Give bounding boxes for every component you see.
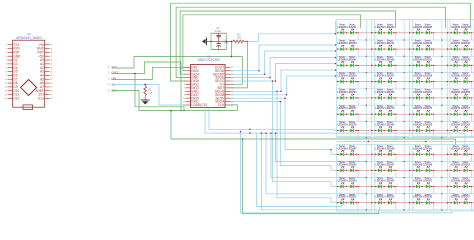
- wire cathode drop D307: [433, 187, 435, 194]
- svg-text:LED270: LED270: [338, 107, 348, 110]
- LED252 D252: [451, 56, 461, 67]
- junction row at box edge: [409, 202, 410, 203]
- wire SEG band row5: [231, 70, 336, 91]
- arduino pin VIN: [39, 43, 53, 47]
- junction D294 cathode: [346, 170, 347, 171]
- svg-text:LED263: LED263: [347, 91, 357, 94]
- junction D277 cathode: [469, 114, 470, 115]
- module box top 2: [374, 20, 409, 137]
- junction D238 cathode: [346, 48, 347, 49]
- wire cathode drop D303: [357, 187, 359, 194]
- wire cathode lead D279: [354, 129, 359, 131]
- junction cathode drop: [358, 48, 359, 49]
- junction anode in D254: [337, 81, 338, 82]
- svg-text:LED231: LED231: [347, 26, 357, 29]
- wire lead D232-D233: [382, 32, 389, 34]
- wire anode lead D260: [450, 81, 454, 83]
- wire anode lead D256: [374, 81, 378, 83]
- wire lead D290-D291: [419, 153, 426, 155]
- wire bottom outer rail: [241, 132, 453, 213]
- junction row at box edge: [447, 97, 448, 98]
- LED254 D254: [338, 72, 348, 83]
- arduino pin D10: [5, 89, 19, 93]
- wire anode lead D234: [412, 32, 416, 34]
- net label VCC: [108, 65, 117, 69]
- wire cathode drop D283: [433, 130, 435, 137]
- U1 pin SEGD: [215, 69, 233, 73]
- svg-text:LED279: LED279: [347, 123, 357, 126]
- wire anode lead D272: [374, 113, 378, 115]
- svg-text:LED284: LED284: [451, 123, 461, 126]
- LED261 D261: [461, 72, 471, 83]
- wire lead D298-D299: [419, 169, 426, 171]
- wire lead D302-D303: [344, 186, 351, 188]
- junction anode in D256: [375, 81, 376, 82]
- column bus 3: [441, 20, 443, 212]
- LED245 D245: [461, 40, 471, 51]
- wire cathode drop D265: [395, 98, 397, 105]
- junction D293 cathode: [469, 154, 470, 155]
- junction row at box edge: [447, 32, 448, 33]
- LED294 D294: [338, 161, 348, 172]
- U1 pin SEGA: [215, 100, 233, 104]
- wire column bus row y=81.64: [337, 88, 474, 90]
- svg-text:LED282: LED282: [413, 123, 423, 126]
- junction bottom row4: [276, 91, 278, 93]
- LED266 D266: [413, 89, 423, 100]
- wire row continuation after D285: [472, 129, 474, 131]
- junction column bus: [404, 56, 405, 57]
- junction row at box edge: [409, 114, 410, 115]
- svg-text:LED249: LED249: [385, 58, 395, 61]
- svg-text:LED287: LED287: [347, 147, 357, 150]
- wire row continuation after D287: [358, 153, 374, 155]
- svg-text:VCC: VCC: [112, 65, 118, 69]
- LED234 D234: [413, 23, 423, 34]
- wire VCC to V+ pin: [112, 57, 243, 85]
- wire anode lead D302: [337, 186, 341, 188]
- wire row continuation after D251: [434, 64, 450, 66]
- junction D299 cathode: [431, 170, 432, 171]
- wire cathode lead D255: [354, 81, 359, 83]
- svg-text:LED305: LED305: [385, 180, 395, 183]
- junction column bus: [441, 137, 442, 138]
- wire cathode lead D295: [354, 169, 359, 171]
- junction anode in D278: [337, 130, 338, 131]
- wire lead D266-D267: [419, 97, 426, 99]
- junction matrix rail: [335, 33, 337, 35]
- junction cathode drop: [433, 154, 434, 155]
- LED249 D249: [385, 56, 395, 67]
- wire row continuation after D291: [434, 153, 450, 155]
- junction column bus: [404, 39, 405, 40]
- wire anode lead D278: [337, 129, 341, 131]
- wire anode lead D290: [412, 153, 416, 155]
- wire anode lead D298: [412, 169, 416, 171]
- junction column bus: [441, 72, 442, 73]
- arduino pin D5: [6, 70, 18, 74]
- wire row continuation after D307: [434, 186, 450, 188]
- junction anode in D300: [451, 170, 452, 171]
- wire lead D234-D235: [419, 32, 426, 34]
- LED265 D265: [385, 89, 395, 100]
- wire row continuation after D241: [396, 48, 412, 50]
- junction D246 cathode: [346, 65, 347, 66]
- wire cathode lead D311: [354, 202, 359, 204]
- wire bottom bus row2: [271, 133, 366, 178]
- teal top rail gap links: [372, 20, 450, 145]
- svg-text:LED285: LED285: [461, 123, 471, 126]
- wire green long bottom: [171, 111, 456, 145]
- svg-text:14: 14: [5, 94, 7, 96]
- svg-text:ARDUINO_NANO: ARDUINO_NANO: [16, 36, 42, 40]
- wire row continuation after D309: [472, 186, 474, 188]
- wire row continuation after D317: [472, 202, 474, 204]
- module box top 4: [450, 20, 474, 137]
- junction column bus: [366, 56, 367, 57]
- junction bottom row1 bend: [330, 149, 332, 151]
- svg-text:LED268: LED268: [451, 91, 461, 94]
- wire cathode lead D267: [429, 97, 434, 99]
- svg-text:LED300: LED300: [451, 163, 461, 166]
- LED313 D313: [385, 193, 395, 204]
- junction D273 cathode: [393, 114, 394, 115]
- junction D235 cathode: [431, 32, 432, 33]
- junction D309 cathode: [469, 186, 470, 187]
- wire cathode lead D249: [391, 64, 396, 66]
- svg-text:LED244: LED244: [451, 42, 461, 45]
- wire lead D308-D309: [457, 186, 464, 188]
- junction D279 cathode: [355, 130, 356, 131]
- LED282 D282: [413, 121, 423, 132]
- LED241 D241: [385, 40, 395, 51]
- arduino pin GND: [37, 47, 53, 51]
- svg-text:LED296: LED296: [375, 163, 385, 166]
- wire SEG band row6: [231, 76, 336, 95]
- junction VCC branch: [231, 56, 233, 58]
- LED247 D247: [347, 56, 357, 67]
- junction row at box edge: [371, 32, 372, 33]
- resistor R2: [233, 35, 248, 43]
- junction row at box edge: [371, 48, 372, 49]
- arduino pin A6: [40, 81, 52, 85]
- junction cathode drop: [471, 130, 472, 131]
- wire lead D246-D247: [344, 64, 351, 66]
- wire anode lead D288: [374, 153, 378, 155]
- wire cathode lead D253: [467, 64, 472, 66]
- wire cathode lead D315: [429, 202, 434, 204]
- module box bottom 1: [337, 145, 372, 211]
- svg-text:8: 8: [6, 71, 7, 73]
- LED306 D306: [413, 177, 423, 188]
- junction D263 cathode: [355, 97, 356, 98]
- wire cathode drop D311: [357, 203, 359, 210]
- wire row continuation after D253: [472, 64, 474, 66]
- LED311 D311: [347, 193, 357, 204]
- svg-text:15: 15: [5, 98, 7, 100]
- junction cathode drop: [471, 186, 472, 187]
- junction anode in D232: [375, 32, 376, 33]
- LED259 D259: [423, 72, 433, 83]
- junction D304 cathode: [384, 186, 385, 187]
- junction column bus: [366, 88, 367, 89]
- junction D268 cathode: [459, 97, 460, 98]
- svg-text:LED298: LED298: [413, 163, 423, 166]
- LED273 D273: [385, 105, 395, 116]
- junction D275 cathode: [431, 114, 432, 115]
- junction D296 cathode: [384, 170, 385, 171]
- wire row continuation after D295: [358, 169, 374, 171]
- svg-text:7: 7: [6, 68, 7, 70]
- junction anode in D274: [413, 114, 414, 115]
- wire cathode drop D297: [395, 170, 397, 177]
- junction D310 cathode: [346, 202, 347, 203]
- capacitor C2 polarized: [216, 40, 229, 50]
- arduino pin A0: [40, 58, 52, 62]
- junction D259 cathode: [431, 81, 432, 82]
- junction row at box edge: [447, 154, 448, 155]
- wire lead D276-D277: [457, 113, 464, 115]
- junction D312 cathode: [384, 202, 385, 203]
- svg-text:2: 2: [6, 48, 7, 50]
- svg-text:24: 24: [51, 68, 53, 70]
- wire row continuation after D239: [358, 48, 374, 50]
- junction D281 cathode: [393, 130, 394, 131]
- junction D308 cathode: [459, 186, 460, 187]
- svg-text:LED273: LED273: [385, 107, 395, 110]
- wire row continuation after D305: [396, 186, 412, 188]
- junction cathode drop: [358, 32, 359, 33]
- LED238 D238: [338, 40, 348, 51]
- junction anode in D238: [337, 48, 338, 49]
- wire bottom row4: [277, 91, 337, 202]
- wire anode lead D292: [450, 153, 454, 155]
- junction SEGA: [280, 101, 282, 103]
- svg-text:28: 28: [51, 52, 53, 54]
- wire DIG4 top bus: [180, 11, 395, 74]
- wire anode lead D310: [337, 202, 341, 204]
- LED244 D244: [451, 40, 461, 51]
- svg-text:LOAD(CS): LOAD(CS): [191, 103, 207, 107]
- junction SEG row6: [286, 94, 288, 96]
- svg-text:LED294: LED294: [338, 163, 348, 166]
- wire CS to LOAD pin: [112, 84, 186, 105]
- junction column bus: [441, 121, 442, 122]
- LED315 D315: [423, 193, 433, 204]
- LED309 D309: [461, 177, 471, 188]
- wire row continuation after D281: [396, 129, 412, 131]
- U1 pin DIG5: [183, 96, 199, 100]
- svg-text:LED297: LED297: [385, 163, 395, 166]
- junction row at box edge: [447, 202, 448, 203]
- wire column bus row y=114.2: [337, 120, 474, 122]
- junction D234 cathode: [421, 32, 422, 33]
- wire SEG band row4: [231, 64, 336, 82]
- junction cathode drop: [395, 154, 396, 155]
- wire cathode lead D317: [467, 202, 472, 204]
- junction D237 cathode: [469, 32, 470, 33]
- LED242 D242: [413, 40, 423, 51]
- LED290 D290: [413, 145, 423, 156]
- wire cathode lead D273: [391, 113, 396, 115]
- junction D255 cathode: [355, 81, 356, 82]
- svg-text:LED271: LED271: [347, 107, 357, 110]
- junction D311 cathode: [355, 202, 356, 203]
- wire cathode drop D301: [471, 170, 473, 177]
- LED296 D296: [375, 161, 385, 172]
- arduino pin D8: [5, 81, 18, 85]
- wire CLK under chip to CLK pin: [112, 91, 238, 111]
- U1 pin DIN: [184, 65, 198, 69]
- junction GND branch: [134, 73, 136, 75]
- arduino pin A2: [40, 66, 52, 70]
- svg-text:LED230: LED230: [338, 26, 348, 29]
- junction anode in D262: [337, 97, 338, 98]
- junction column bus: [404, 137, 405, 138]
- LED253 D253: [461, 56, 471, 67]
- junction bus row2: [270, 132, 272, 134]
- junction GND branch bottom: [183, 110, 185, 112]
- junction cathode drop: [395, 81, 396, 82]
- junction D245 cathode: [469, 48, 470, 49]
- junction anode in D302: [337, 186, 338, 187]
- svg-text:LED262: LED262: [338, 91, 348, 94]
- arduino pin A4: [40, 74, 52, 78]
- arduino pin D6: [6, 74, 18, 78]
- arduino pin AREF: [35, 89, 52, 93]
- wire lead D240-D241: [382, 48, 389, 50]
- svg-text:D12: D12: [13, 97, 19, 101]
- module box top 3: [412, 20, 447, 137]
- junction cathode drop: [358, 65, 359, 66]
- U1 pin DOUT: [215, 65, 233, 69]
- junction cathode drop: [471, 48, 472, 49]
- LED288 D288: [375, 145, 385, 156]
- junction row at box edge: [447, 114, 448, 115]
- wire anode lead D296: [374, 169, 378, 171]
- wire cathode lead D261: [467, 81, 472, 83]
- junction row at box edge: [409, 97, 410, 98]
- junction D264 cathode: [384, 97, 385, 98]
- junction D298 cathode: [421, 170, 422, 171]
- junction column bus: [441, 88, 442, 89]
- LED270 D270: [338, 105, 348, 116]
- wire SEG band row2: [231, 51, 336, 74]
- LED292 D292: [451, 145, 461, 156]
- wire cathode drop D263: [357, 98, 359, 105]
- wire VCC branch to caps: [231, 41, 233, 56]
- junction D249 cathode: [393, 65, 394, 66]
- junction D297 cathode: [393, 170, 394, 171]
- arduino pin GND: [6, 54, 21, 58]
- junction anode in D240: [375, 48, 376, 49]
- junction anode in D268: [451, 97, 452, 98]
- junction D302 cathode: [346, 186, 347, 187]
- junction anode in D286: [337, 154, 338, 155]
- wire cathode lead D235: [429, 32, 434, 34]
- junction SEG row4: [275, 80, 277, 82]
- wire SEGF bottom row1: [231, 98, 337, 154]
- junction D257 cathode: [393, 81, 394, 82]
- junction cathode drop: [358, 186, 359, 187]
- wire lead D250-D251: [419, 64, 426, 66]
- wire row continuation after D265: [396, 97, 412, 99]
- junction cathode drop: [471, 81, 472, 82]
- junction row7 line: [249, 129, 251, 131]
- wire anode lead D268: [450, 97, 454, 99]
- wire cathode drop D231: [357, 33, 359, 40]
- svg-text:LED295: LED295: [347, 163, 357, 166]
- junction D276 cathode: [459, 114, 460, 115]
- svg-text:LED308: LED308: [451, 180, 461, 183]
- wire lead D304-D305: [382, 186, 389, 188]
- svg-text:LED241: LED241: [385, 42, 395, 45]
- wire lead D260-D261: [457, 81, 464, 83]
- svg-text:LED303: LED303: [347, 180, 357, 183]
- wire cathode drop D293: [471, 154, 473, 161]
- junction anode in D280: [375, 130, 376, 131]
- svg-text:LED275: LED275: [423, 107, 433, 110]
- wire row continuation after D233: [396, 32, 412, 34]
- svg-text:LED269: LED269: [461, 91, 471, 94]
- wire SEG band row3: [231, 58, 336, 78]
- wire cap loop right side: [225, 33, 227, 49]
- wire cathode lead D285: [467, 129, 472, 131]
- wire anode lead D280: [374, 129, 378, 131]
- svg-text:LED264: LED264: [375, 91, 385, 94]
- wire cathode drop D233: [395, 33, 397, 40]
- wire cap loop left side: [210, 33, 212, 49]
- svg-text:0.1µF: 0.1µF: [215, 31, 222, 33]
- wire cathode drop D285: [471, 130, 473, 137]
- svg-text:LED259: LED259: [423, 75, 433, 78]
- svg-text:20: 20: [51, 83, 53, 85]
- svg-text:11: 11: [5, 83, 7, 85]
- svg-text:LED313: LED313: [385, 196, 395, 199]
- svg-text:LED292: LED292: [451, 147, 461, 150]
- wire anode lead D264: [374, 97, 378, 99]
- LED243 D243: [423, 40, 433, 51]
- wire cathode lead D263: [354, 97, 359, 99]
- junction D260 cathode: [459, 81, 460, 82]
- junction anode in D312: [375, 202, 376, 203]
- junction D283 cathode: [431, 130, 432, 131]
- net label DIN: [108, 77, 116, 81]
- wire anode lead D238: [337, 48, 341, 50]
- module box top 1: [337, 20, 372, 137]
- junction anode in D298: [413, 170, 414, 171]
- wire row continuation after D261: [472, 81, 474, 83]
- wire anode lead D246: [337, 64, 341, 66]
- U1 pin SEGDP: [213, 72, 233, 76]
- svg-text:13: 13: [5, 91, 7, 93]
- LED255 D255: [347, 72, 357, 83]
- junction cathode drop: [395, 114, 396, 115]
- junction D261 cathode: [469, 81, 470, 82]
- wire cathode lead D281: [391, 129, 396, 131]
- junction D232 cathode: [384, 32, 385, 33]
- junction bottom outer: [240, 131, 242, 133]
- wire cathode lead D299: [429, 169, 434, 171]
- junction anode in D242: [413, 48, 414, 49]
- U1 pin DIG1: [183, 100, 199, 104]
- wire row continuation after D247: [358, 64, 374, 66]
- wire bottom row3: [273, 81, 337, 187]
- wire cathode drop D275: [433, 114, 435, 121]
- svg-text:5: 5: [6, 60, 7, 62]
- junction caps left: [210, 41, 212, 43]
- svg-text:18: 18: [51, 91, 53, 93]
